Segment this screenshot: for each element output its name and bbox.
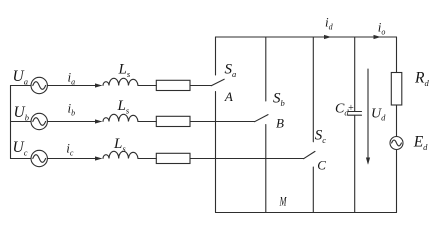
voltage source Ua	[31, 77, 47, 93]
inductor Ls (phase b)	[103, 114, 138, 121]
wire phase b: bus to source	[11, 121, 32, 123]
voltage arrow Ud	[367, 69, 369, 163]
converter box top wire	[216, 36, 397, 38]
wire phase c: source to inductor	[47, 158, 101, 160]
neutral bus wire	[10, 86, 12, 159]
wire phase c: inductor to resistor	[138, 158, 156, 160]
wire phase c: resistor to switch	[190, 158, 304, 160]
current arrow id	[324, 35, 331, 39]
svg-text:Uc: Uc	[13, 139, 28, 158]
wire phase a: resistor to switch	[190, 85, 211, 87]
voltage source Ed	[390, 137, 403, 150]
switch Sc blade	[304, 151, 315, 158]
svg-text:id: id	[325, 15, 334, 32]
capacitor branch wire lower	[354, 115, 356, 212]
svg-text:io: io	[378, 20, 386, 37]
current arrow ia	[95, 83, 102, 87]
converter box divider at Sc	[312, 37, 314, 213]
svg-text:ib: ib	[68, 101, 76, 118]
capacitor Cd plates	[348, 112, 362, 116]
wire phase c: bus to source	[11, 158, 32, 160]
resistor R1 (phase a)	[156, 80, 190, 90]
svg-text:+: +	[348, 103, 355, 114]
current arrow ib	[95, 119, 102, 123]
switch Sa blade	[211, 79, 224, 86]
wire phase a: inductor to resistor	[138, 85, 156, 87]
voltage source Ub	[31, 113, 47, 129]
svg-text:Sa: Sa	[225, 62, 237, 80]
resistor R3 (phase c)	[156, 153, 190, 163]
inductor Ls (phase a)	[103, 78, 138, 85]
converter box left edge (gap at Sa)	[215, 37, 217, 213]
svg-text:Sc: Sc	[315, 128, 327, 146]
current arrow io	[374, 35, 381, 39]
svg-text:Rd: Rd	[414, 70, 429, 89]
converter box bottom wire	[216, 212, 397, 214]
converter box divider at Sb	[265, 37, 267, 213]
svg-text:Ud: Ud	[371, 107, 386, 123]
capacitor branch wire upper	[354, 37, 356, 111]
svg-text:ic: ic	[66, 141, 74, 158]
wire: resistor to source Ed	[396, 105, 398, 137]
current arrow ic	[95, 156, 102, 160]
svg-text:A: A	[224, 89, 233, 104]
inductor Ls (phase c)	[103, 151, 138, 158]
wire phase a: bus to source	[11, 85, 32, 87]
svg-text:Ls: Ls	[113, 136, 126, 154]
load branch wire: top to resistor	[396, 37, 398, 73]
voltage source Uc	[31, 150, 47, 166]
svg-text:Sb: Sb	[273, 91, 285, 109]
svg-text:ia: ia	[68, 70, 76, 87]
svg-text:C: C	[317, 158, 326, 173]
wire phase a: source to inductor	[47, 85, 101, 87]
svg-text:Ub: Ub	[14, 104, 29, 123]
wire phase b: resistor to switch	[190, 121, 255, 123]
svg-text:B: B	[276, 116, 284, 131]
svg-text:M: M	[279, 194, 287, 208]
wire phase b: source to inductor	[47, 121, 101, 123]
wire: source Ed to bottom	[396, 150, 398, 213]
wire phase b: inductor to resistor	[138, 121, 156, 123]
load resistor Rd	[391, 73, 402, 106]
svg-text:Ls: Ls	[118, 62, 131, 80]
svg-text:Ed: Ed	[413, 134, 428, 153]
switch Sb blade	[255, 115, 268, 122]
svg-text:Ua: Ua	[13, 68, 28, 87]
svg-text:Ls: Ls	[117, 98, 130, 116]
resistor R2 (phase b)	[156, 116, 190, 126]
